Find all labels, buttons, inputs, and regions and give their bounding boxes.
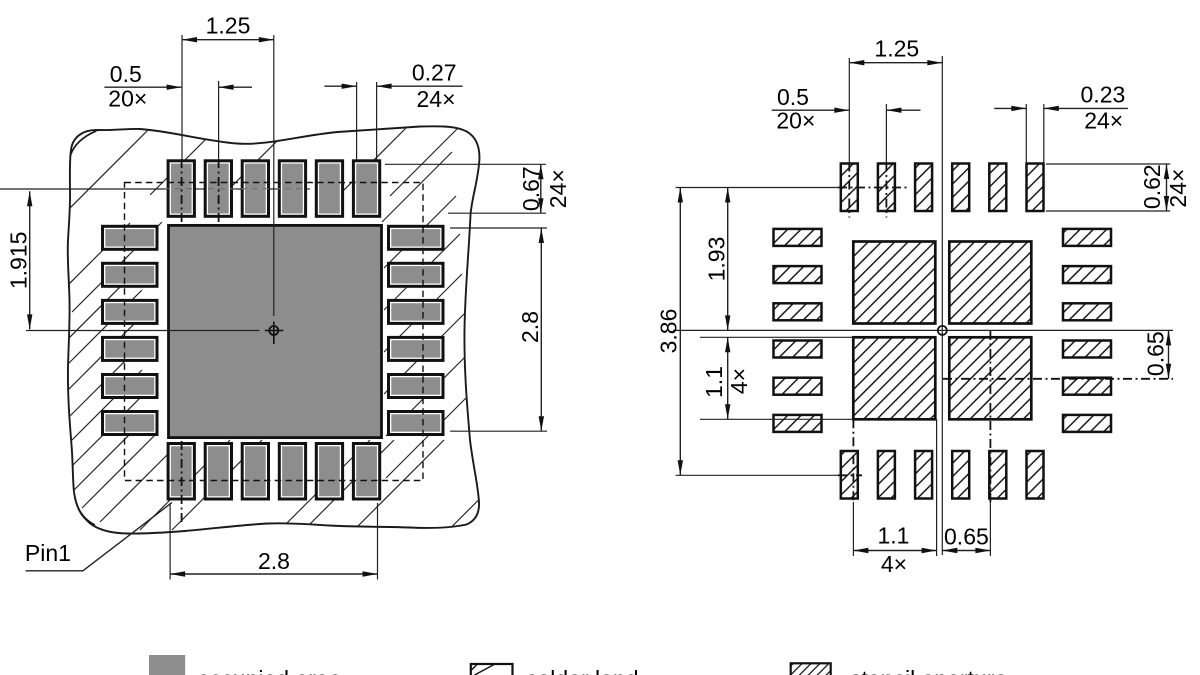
svg-text:2.8: 2.8 (517, 311, 543, 343)
svg-text:0.65: 0.65 (944, 524, 989, 550)
svg-text:occupied area: occupied area (197, 666, 342, 675)
svg-text:0.67: 0.67 (518, 166, 544, 211)
svg-text:20×: 20× (776, 108, 815, 134)
svg-text:0.65: 0.65 (1143, 331, 1169, 376)
svg-text:1.25: 1.25 (206, 13, 251, 39)
svg-text:2.8: 2.8 (258, 548, 290, 574)
svg-text:1.93: 1.93 (704, 237, 730, 282)
svg-text:1.1: 1.1 (878, 523, 910, 549)
svg-text:24×: 24× (1165, 169, 1191, 208)
svg-text:0.5: 0.5 (777, 84, 809, 110)
svg-text:3.86: 3.86 (656, 309, 682, 354)
svg-text:0.62: 0.62 (1139, 164, 1165, 209)
svg-text:20×: 20× (108, 86, 147, 112)
svg-text:stencil aperture: stencil aperture (850, 666, 1007, 675)
svg-text:solder land: solder land (526, 666, 639, 675)
svg-text:0.27: 0.27 (412, 60, 457, 86)
svg-text:Pin1: Pin1 (25, 540, 71, 566)
svg-text:0.5: 0.5 (110, 61, 142, 87)
svg-text:24×: 24× (1084, 108, 1123, 134)
svg-text:1.25: 1.25 (874, 35, 919, 61)
svg-text:1.915: 1.915 (6, 232, 32, 290)
svg-text:4×: 4× (726, 368, 752, 394)
svg-text:1.1: 1.1 (701, 366, 727, 398)
svg-text:24×: 24× (416, 86, 455, 112)
svg-text:24×: 24× (545, 169, 571, 208)
svg-text:4×: 4× (881, 551, 907, 577)
svg-text:0.23: 0.23 (1081, 81, 1126, 107)
